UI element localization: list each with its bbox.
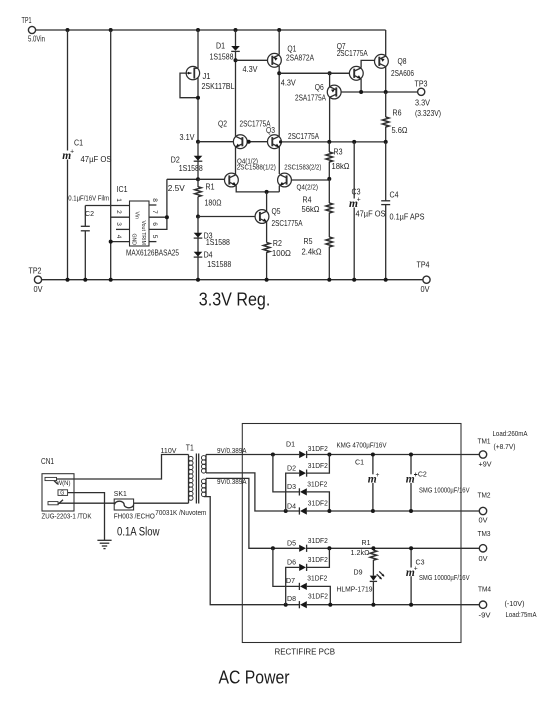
svg-text:TP1: TP1 (22, 16, 32, 25)
svg-text:C2: C2 (85, 209, 94, 218)
wire IC1 pin 8 stub (149, 204, 156, 206)
diode D4 1S1588 (194, 252, 203, 257)
junction top rail x=198 (196, 28, 200, 32)
wire Q7 collector to Q8 base (361, 60, 374, 67)
svg-text:AC Power: AC Power (219, 667, 290, 688)
wire IC1 pin 6 (149, 179, 167, 229)
junction 0V rail IC1 (109, 278, 113, 282)
svg-text:C1: C1 (74, 138, 83, 147)
svg-text:SK1: SK1 (114, 489, 127, 498)
svg-text:31DF2: 31DF2 (308, 444, 328, 453)
svg-text:2.5V: 2.5V (168, 184, 186, 193)
node TP4 test point 0V (423, 276, 430, 283)
svg-text:1: 1 (115, 198, 122, 202)
svg-text:0.1A Slow: 0.1A Slow (117, 526, 160, 538)
wire D6 anode from AC4 (286, 567, 300, 604)
svg-text:(-10V): (-10V) (505, 599, 525, 608)
node TP1 test point (28, 26, 35, 33)
wire IC1 pin 5 stub (149, 241, 156, 243)
svg-text:R5: R5 (304, 237, 313, 246)
svg-text:8: 8 (151, 198, 158, 202)
svg-text:Q6: Q6 (315, 83, 324, 92)
PCB outline RECTIFIRE PCB (242, 424, 461, 643)
diode D2 31DF2 (299, 470, 306, 477)
transistor Q4(2/2) 2SC1583(2/2) (278, 173, 292, 187)
svg-text:IC1: IC1 (117, 185, 128, 194)
wire AC2 secondary jog to D4 row (206, 473, 299, 511)
junction pin 7 2.5V line (165, 215, 169, 219)
svg-text:2SK117BL: 2SK117BL (202, 82, 235, 91)
svg-text:CN1: CN1 (41, 457, 54, 466)
svg-text:0V: 0V (479, 554, 488, 563)
svg-text:HLMP-1719: HLMP-1719 (337, 585, 373, 594)
CN1 neutral pin blade (48, 502, 58, 505)
svg-text:TM4: TM4 (478, 584, 491, 593)
wire D7 anode down to -9V rail (307, 586, 331, 604)
junction D1 cathode / Q1 base (234, 58, 238, 62)
svg-text:7: 7 (151, 210, 158, 214)
junction pin4 to ground rail (109, 240, 113, 244)
svg-text:4.3V: 4.3V (281, 78, 297, 87)
fuse SK1 FH003 0.1A slow (114, 499, 133, 510)
svg-text:0.1µF/16V Film: 0.1µF/16V Film (68, 194, 109, 203)
svg-text:3: 3 (115, 222, 122, 226)
wire Q2 emitter to Q3 base (247, 141, 268, 143)
svg-text:Load:75mA: Load:75mA (506, 610, 537, 619)
resistor R5 2.4kohm (326, 237, 333, 247)
wire Q1 collector to Q7 base (279, 72, 349, 74)
svg-text:31DF2: 31DF2 (307, 574, 327, 583)
wire Q7 emitter down (360, 79, 362, 92)
svg-text:Load:260mA: Load:260mA (493, 429, 528, 438)
transistor Q7 2SC1775A (349, 66, 363, 80)
svg-text:Q2: Q2 (218, 119, 227, 128)
junction Q3 emitter (279, 140, 282, 143)
junction D3/D4 anodes (327, 509, 331, 513)
svg-text:Vout TRIM: Vout TRIM (140, 221, 146, 245)
diode D8 31DF2 (300, 601, 307, 608)
svg-text:2SA1775A: 2SA1775A (295, 93, 327, 102)
svg-text:RECTIFIRE PCB: RECTIFIRE PCB (275, 648, 336, 657)
svg-text:D4: D4 (204, 251, 213, 260)
svg-text:D5: D5 (287, 539, 296, 548)
svg-text:31DF2: 31DF2 (308, 498, 328, 507)
junction AC2 / D2 anode branch (284, 509, 288, 513)
svg-text:5.6Ω: 5.6Ω (392, 126, 408, 135)
transistor Q4(1/2) 2SC1588(1/2) (225, 173, 239, 187)
transistor Q5 2SC1775A (255, 210, 269, 224)
svg-text:47µF OS: 47µF OS (356, 209, 386, 218)
svg-text:31DF2: 31DF2 (307, 480, 327, 489)
svg-text:1.2kΩ: 1.2kΩ (351, 548, 370, 557)
junction C1 bottom (371, 509, 375, 513)
svg-text:R6: R6 (393, 109, 402, 118)
junction J1 gate to source (196, 96, 200, 100)
node TM4 -9V terminal (479, 601, 486, 608)
transistor Q3 2SC1775A (278, 135, 280, 138)
node TM3 0V terminal (479, 545, 486, 552)
junction Q7 emitter at Q6 rail (359, 90, 363, 94)
svg-text:R3: R3 (334, 147, 343, 156)
svg-text:0.1µF APS: 0.1µF APS (390, 213, 425, 222)
capacitor C4 0.1uF APS (385, 142, 387, 201)
svg-text:KMG 4700µF/16V: KMG 4700µF/16V (337, 441, 387, 450)
wire AC1 secondary to bridge (206, 454, 299, 456)
wire Q4(2/2) emitter (278, 186, 280, 192)
wire D2 cathode up to plus rail (307, 455, 330, 474)
junction C1 top (371, 453, 375, 457)
junction C2 top (409, 453, 413, 457)
svg-text:5.0Vin: 5.0Vin (28, 35, 45, 44)
junction R6 bottom rail (384, 140, 388, 144)
transistor Q6 2SA1775A (327, 85, 341, 99)
junction D5/D6 cathodes (327, 546, 331, 550)
wire Q3 emitter rail to R6 bottom (281, 141, 386, 143)
svg-text:TP3: TP3 (415, 80, 428, 89)
svg-text:(3.323V): (3.323V) (415, 109, 441, 118)
svg-text:D3: D3 (287, 482, 296, 491)
svg-text:0V: 0V (34, 285, 44, 294)
svg-text:FH003 /ECHO: FH003 /ECHO (114, 512, 155, 521)
svg-text:2SC1588(1/2): 2SC1588(1/2) (237, 163, 276, 172)
transistor Q2 2SC1775A (235, 135, 237, 138)
wire D6 cathode up to 0V rail (307, 548, 330, 567)
node TP3 test point 3.3V (418, 88, 425, 95)
svg-text:-9V: -9V (479, 610, 491, 619)
junction 3.1V node (196, 140, 200, 144)
svg-text:2SA606: 2SA606 (391, 69, 414, 78)
svg-text:+9V: +9V (479, 460, 492, 469)
junction Q4 emitters to Q5 collector (265, 190, 269, 194)
svg-text:56kΩ: 56kΩ (302, 205, 320, 214)
wire D4 anode to 0V rail (307, 510, 479, 512)
svg-text:MAX6126BASA25: MAX6126BASA25 (126, 248, 179, 257)
svg-text:Q8: Q8 (398, 57, 407, 66)
svg-text:110V: 110V (161, 446, 177, 455)
wire D8 anode to -9V rail (307, 604, 479, 606)
wire IC1 pin 4 (111, 241, 130, 243)
wire Q2 emitter node down to Q4(1/2) collector (235, 147, 237, 174)
resistor R1 180ohm (197, 179, 199, 187)
svg-text:70031K /Nuvotem: 70031K /Nuvotem (155, 508, 206, 517)
wire Q4(1/2) collector (235, 174, 237, 176)
junction Q1 collector 4.3V node (277, 71, 281, 75)
transistor Q8 2SA606 (375, 54, 389, 68)
junction C3 bottom (409, 603, 413, 607)
svg-text:W(N): W(N) (57, 480, 71, 487)
svg-text:180Ω: 180Ω (205, 199, 222, 208)
wire D7 cathode to AC3 (273, 548, 300, 586)
svg-text:100Ω: 100Ω (272, 249, 291, 258)
junction C3 top (409, 546, 413, 550)
capacitor C3 SMG 10000uF/16V (410, 548, 412, 567)
svg-text:1S1588: 1S1588 (206, 238, 230, 247)
svg-text:31DF2: 31DF2 (308, 461, 328, 470)
wire IC1 pin 2 (111, 216, 130, 218)
resistor R3 18kohm (328, 142, 330, 152)
svg-text:TM2: TM2 (478, 490, 491, 499)
svg-text:TM1: TM1 (478, 437, 491, 446)
junction AC3 / D7 cathode branch (271, 546, 275, 550)
svg-text:Q3: Q3 (266, 126, 275, 135)
svg-text:G: G (60, 491, 64, 497)
svg-text:R4: R4 (303, 195, 312, 204)
wire Q5 emitter to R2 (266, 222, 268, 243)
svg-text:D2: D2 (171, 155, 180, 164)
svg-text:ZUG-2203-1 /TDK: ZUG-2203-1 /TDK (42, 512, 92, 521)
svg-text:T1: T1 (186, 443, 194, 452)
junction C2 bottom (409, 509, 413, 513)
wire J1 gate loop (180, 73, 198, 98)
wire AC4 secondary to D8 row (204, 497, 299, 605)
wire 3.1V node to Q2 base (198, 141, 234, 143)
wire Q6 emitter to TP3 (341, 91, 418, 93)
wire Q6 base vertical (329, 73, 331, 87)
transformer T1 secondary winding 2 (205, 478, 207, 496)
wire D2 anode from AC2 (286, 473, 300, 511)
diode D2 1S1588 (197, 142, 199, 180)
wire 0V ground rail (42, 279, 423, 281)
junction D1/D2 cathodes (327, 453, 331, 457)
svg-text:Vin: Vin (133, 212, 139, 220)
wire IC1 pin 7 to 2.5V node (149, 216, 167, 218)
junction R1 bottom node (196, 215, 200, 219)
svg-text:D9: D9 (354, 568, 363, 577)
svg-text:SMG 10000µF/16V: SMG 10000µF/16V (419, 573, 470, 582)
svg-text:2SC1775A: 2SC1775A (272, 219, 304, 228)
transistor J1 2SK117BL JFET (197, 30, 199, 68)
svg-text:D2: D2 (287, 464, 296, 473)
diode D3 1S1588 (197, 217, 199, 280)
svg-text:2SA872A: 2SA872A (286, 53, 315, 62)
ground earth symbol (97, 539, 111, 541)
svg-text:D7: D7 (286, 576, 295, 585)
svg-text:TP4: TP4 (417, 260, 430, 269)
wire Q5 collector (266, 192, 268, 211)
svg-text:Q1: Q1 (287, 44, 296, 53)
transformer T1 secondary winding 1 (205, 455, 207, 473)
junction 0V rail C1 (66, 278, 70, 282)
op-amp IC1 MAX6126 voltage reference box (130, 201, 150, 246)
svg-text:R1: R1 (362, 538, 371, 547)
svg-text:D1: D1 (216, 42, 225, 51)
wire Q4(2/2) base to R3/R4 node (291, 179, 329, 180)
diode D6 31DF2 (299, 564, 306, 571)
wire D3 cathode to AC1 (273, 455, 300, 492)
svg-text:C3: C3 (352, 188, 361, 197)
svg-text:TM3: TM3 (478, 529, 491, 538)
svg-text:31DF2: 31DF2 (308, 536, 328, 545)
svg-text:D8: D8 (287, 594, 296, 603)
svg-text:4.3V: 4.3V (243, 65, 259, 74)
svg-text:4: 4 (115, 235, 122, 239)
junction D7/D8 anodes (328, 603, 332, 607)
junction top rail x=67.5 (66, 28, 70, 32)
wire CN1 live to transformer primary (57, 455, 189, 480)
svg-text:47µF OS: 47µF OS (81, 155, 112, 164)
svg-text:Q5: Q5 (272, 207, 281, 216)
junction 0V rail C4 (384, 278, 388, 282)
CN1 ground contact box (58, 490, 68, 496)
svg-text:SMG 10000µF/16V: SMG 10000µF/16V (419, 485, 470, 494)
svg-text:0V: 0V (479, 516, 488, 525)
junction D2 cathode R1 top (196, 177, 200, 181)
svg-text:0V: 0V (421, 285, 431, 294)
junction 0V rail R5 (327, 278, 331, 282)
junction D9 cathode -9V rail (371, 603, 375, 607)
resistor R4 56kohm (328, 179, 330, 203)
wire Q4 emitter rail (236, 186, 279, 192)
junction R1 top (371, 546, 375, 550)
wire Q3 emitter down to Q4(2/2) collector (278, 147, 280, 174)
svg-text:R2: R2 (273, 239, 282, 248)
junction top rail x=235.5 (234, 28, 238, 32)
node TP2 test point 0V (34, 276, 41, 283)
diode D1 31DF2 (299, 451, 306, 458)
svg-text:3.3V: 3.3V (415, 98, 431, 107)
svg-text:1S1588: 1S1588 (210, 53, 234, 62)
svg-text:Q4(2/2): Q4(2/2) (297, 183, 319, 192)
svg-text:C1: C1 (355, 457, 364, 466)
junction AC1 / D3 cathode branch (271, 453, 275, 457)
svg-text:31DF2: 31DF2 (308, 592, 328, 601)
wire Q8 emitter to top rail (385, 30, 387, 56)
svg-text:TP2: TP2 (29, 266, 42, 275)
svg-text:2SC1583(2/2): 2SC1583(2/2) (284, 162, 321, 171)
svg-text:J1: J1 (203, 72, 212, 81)
capacitor C1 KMG 4700uF/16V (372, 455, 374, 475)
wire CN1 neutral to fuse SK1 (58, 502, 114, 504)
wire CN1 ground to earth (68, 493, 105, 541)
wire D1 cathode to plus rail (307, 454, 480, 456)
capacitor C1 electrolytic 47uF OS (67, 30, 69, 151)
junction 0V rail R2 (265, 278, 269, 282)
junction top rail x=110.7 (109, 28, 113, 32)
LED D9 HLMP-1719 (370, 576, 377, 581)
svg-text:3.1V: 3.1V (180, 133, 196, 142)
transformer T1 core (195, 454, 197, 504)
wire +5V feed to IC1 (110, 30, 112, 280)
CN1 live pin blade (45, 477, 57, 480)
junction Q8 collector TP3 node (384, 90, 388, 94)
capacitor C2 0.1uF/16V Film (84, 206, 86, 227)
svg-text:18kΩ: 18kΩ (332, 162, 350, 171)
svg-text:3.3V Reg.: 3.3V Reg. (199, 288, 270, 309)
wire D5 cathode to 0V rail (307, 547, 480, 549)
junction rail at R3 (327, 140, 331, 144)
junction 0V rail C3 (352, 278, 356, 282)
svg-text:D6: D6 (287, 558, 296, 567)
capacitor C2 SMG 10000uF/16V (410, 455, 412, 475)
svg-text:+: + (70, 147, 74, 155)
wire D3 anode down to minus rail (307, 492, 330, 511)
wire D1 to Q1 base (236, 59, 269, 61)
svg-text:+C2: +C2 (414, 469, 427, 478)
capacitor C3 47uF OS electrolytic (353, 142, 355, 199)
wire top +5V rail (36, 29, 386, 31)
svg-text:2: 2 (115, 210, 122, 214)
junction top rail x=279.2 (277, 28, 281, 32)
wire IC1 pin 3 stub (116, 228, 130, 230)
diode D5 31DF2 (299, 545, 306, 552)
wire R1 bottom node to Q5 base (198, 216, 255, 218)
junction 0V rail D4 (196, 278, 200, 282)
svg-text:D1: D1 (286, 439, 295, 448)
junction Q2 emitter node (247, 140, 251, 144)
node 2.5V (167, 178, 198, 180)
wire AC3 secondary jog to D5 row (206, 478, 299, 548)
resistor R2 100ohm (263, 243, 270, 253)
junction Q6 base tap (328, 71, 332, 75)
svg-text:1S1588: 1S1588 (179, 164, 203, 173)
wire Q8 collector down to TP3 rail (385, 67, 387, 92)
svg-text:2.4kΩ: 2.4kΩ (302, 248, 322, 257)
junction R3 bottom / Q4(2/2) base / R4 top (327, 177, 331, 181)
svg-text:GND: GND (131, 234, 137, 246)
svg-text:R1: R1 (206, 183, 215, 192)
junction 0V rail C2 (83, 278, 87, 282)
svg-text:(+8.7V): (+8.7V) (494, 442, 516, 451)
transistor Q1 2SA872A (278, 30, 280, 55)
svg-text:D4: D4 (287, 502, 296, 511)
svg-text:1S1588: 1S1588 (207, 260, 231, 269)
svg-text:C3: C3 (416, 558, 425, 567)
diode D3 31DF2 (300, 488, 307, 495)
junction AC4 / D6 anode branch (284, 603, 288, 607)
diode D4 31DF2 (300, 507, 307, 514)
wire fuse to transformer primary bottom (134, 502, 189, 504)
wire Q6 collector down to rail (329, 97, 331, 142)
diode D1 1S1588 (235, 30, 237, 46)
node TM2 0V terminal (479, 507, 486, 514)
resistor R1 1.2kohm LED dropper (372, 548, 374, 550)
connector CN1 ZUG-2203-1 (42, 474, 74, 511)
svg-text:31DF2: 31DF2 (308, 555, 328, 564)
svg-text:2SC1775A: 2SC1775A (337, 49, 369, 58)
svg-text:5: 5 (151, 235, 158, 239)
svg-text:C4: C4 (390, 190, 399, 199)
junction rail at C3 (352, 140, 356, 144)
resistor R6 5.6ohm (385, 92, 387, 117)
wire C2 top to IC1 pin 1 (85, 205, 129, 207)
svg-text:+: + (376, 471, 380, 479)
diode D7 31DF2 (300, 583, 307, 590)
svg-text:6: 6 (151, 222, 158, 226)
node TM1 +9V terminal (479, 451, 486, 458)
wire R1 top node to Q4(1/2) base (198, 178, 225, 180)
svg-text:2SC1775A: 2SC1775A (288, 132, 320, 141)
